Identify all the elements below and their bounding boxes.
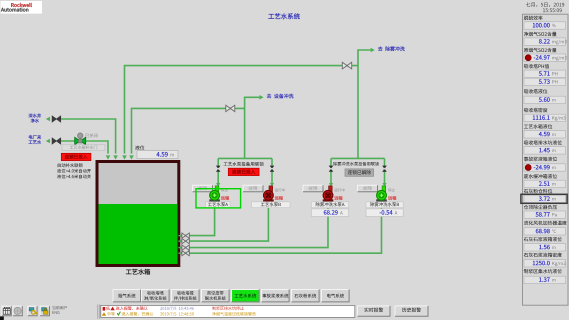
tank level value box xyxy=(137,151,178,159)
left pump group labels xyxy=(224,162,264,166)
nav button 吸收塔喷 xyxy=(141,289,170,302)
pump A 工艺水泵A (green, stopped) xyxy=(209,199,220,201)
sidebar value 58.77 Pa xyxy=(524,211,566,218)
sidebar label 工艺水箱液位 xyxy=(524,124,552,128)
sidebar label 石灰石浆液箱密度 xyxy=(524,253,562,257)
selection box around pump A xyxy=(196,189,241,208)
nav button 石灰粉系统 xyxy=(291,289,320,302)
label 电厂来工艺水 xyxy=(29,135,41,139)
pump B 工艺水泵B (red, running) xyxy=(263,199,274,201)
label 去设备冲洗 xyxy=(267,94,294,99)
pump current value boxes xyxy=(311,209,348,217)
arrow plant water xyxy=(46,139,50,144)
nav button 电气系统 xyxy=(321,289,350,302)
sidebar label 废水缓冲箱液位 xyxy=(524,174,557,178)
sidebar value 8.22 mg/m3 xyxy=(524,38,566,45)
sidebar label 仓顶除尘器负压 xyxy=(524,205,557,209)
sidebar value 1.45 m xyxy=(524,147,566,154)
branch up to equipment flush xyxy=(245,97,260,158)
tank inlet valve xyxy=(178,240,182,242)
tank 工艺水箱 xyxy=(97,162,179,266)
nav button 吸收塔搅 xyxy=(171,289,200,302)
label 工艺水箱 xyxy=(126,269,150,275)
sidebar label 净烟气SO2含量 xyxy=(524,32,557,36)
sidebar value 1.56 m xyxy=(524,244,566,251)
pump D discharge to tank xyxy=(183,202,382,254)
sidebar label 制浆区集水坑液位 xyxy=(524,269,562,273)
pump B discharge to tank xyxy=(183,202,268,242)
tank inlet valve xyxy=(178,247,182,249)
riser pump B xyxy=(271,158,273,183)
right pump group labels xyxy=(333,162,379,166)
sidebar value 5.73 PH xyxy=(524,78,566,85)
interlock engaged box xyxy=(232,170,255,174)
interlock engaged box left xyxy=(61,153,91,160)
sidebar label 原烟气SO2含量 xyxy=(524,48,557,52)
nav button 工艺水系统 xyxy=(231,289,260,302)
sidebar value -24.97 mg/m3 xyxy=(524,54,566,61)
sidebar label 吸收塔密度 xyxy=(524,108,547,112)
nav button 真空皮带 xyxy=(201,289,230,302)
nav button 事故浆液系统 xyxy=(261,289,290,302)
pipe: second header to equipment flush xyxy=(132,108,245,153)
sidebar label 吸收塔液位 xyxy=(524,89,547,93)
sidebar value 100.00 % xyxy=(524,22,566,29)
motor valve 工艺水箱补水门 (green bowtie + actuator) xyxy=(75,137,86,144)
fault buttons 故障 xyxy=(192,185,213,192)
sidebar label 流化风机加热器温度 xyxy=(524,221,567,225)
interlock released box xyxy=(348,170,371,174)
remote labels 远程 xyxy=(221,196,229,200)
date time xyxy=(526,2,564,7)
sidebar value 1250.0 Kg/m3 xyxy=(524,260,566,267)
sidebar label 吸收塔PH值 xyxy=(524,64,549,68)
sidebar label 石灰粉仓料位 xyxy=(524,189,552,193)
pump name plates xyxy=(206,202,230,208)
pump C 除雾冲洗水泵A (red, running) xyxy=(323,199,334,201)
supply valve label box 工艺水箱补水门 xyxy=(62,145,105,151)
alarm row 1 xyxy=(103,307,106,311)
sidebar value 1.37 m xyxy=(524,276,566,283)
left pump group suction header xyxy=(218,157,272,159)
status bar icons xyxy=(1,306,11,317)
valve well water xyxy=(52,116,61,122)
pump D 除雾冲洗水泵B (green, stopped) xyxy=(376,199,387,201)
pipe: well water inlet line xyxy=(61,119,116,154)
tank inlet valve xyxy=(178,252,182,254)
branch up to demister flush xyxy=(358,50,371,158)
Rockwell Automation logo xyxy=(1,1,43,14)
riser pump A xyxy=(217,158,219,183)
bottom-left black mark xyxy=(0,316,4,320)
tank inlet valve xyxy=(178,235,182,237)
valve on top header xyxy=(342,62,351,69)
label 深水井净水 xyxy=(29,114,41,118)
sidebar value 3.72 m xyxy=(524,195,566,202)
sidebar label 事故浆液箱液位 xyxy=(524,157,557,161)
nav button 烟气系统 xyxy=(113,289,142,302)
right pump group suction header xyxy=(331,157,385,159)
sidebar panel xyxy=(523,14,569,305)
pump status tiny texts xyxy=(221,188,228,191)
alarm row 2 xyxy=(102,312,106,316)
pump C discharge to tank xyxy=(183,202,328,248)
sidebar label 脱硫效率 xyxy=(524,16,543,20)
sidebar value -24.99 m xyxy=(524,164,566,171)
alarm list box xyxy=(101,305,355,317)
sidebar label 石灰石浆液箱液位 xyxy=(524,237,562,241)
pipe: plant process water inlet line xyxy=(61,141,109,154)
label 去除雾冲洗 xyxy=(378,46,405,51)
arrow well water xyxy=(46,117,50,122)
label 液位 xyxy=(135,145,144,149)
alarm buttons xyxy=(357,305,391,316)
label 已关闭 xyxy=(85,133,97,137)
sidebar value 2.51 m xyxy=(524,180,566,187)
pump A discharge to tank xyxy=(183,202,215,236)
sidebar label 吸收塔排水坑液位 xyxy=(524,140,562,144)
riser pump C xyxy=(330,158,332,183)
title 工艺水系统 xyxy=(268,13,299,19)
separator xyxy=(98,305,100,319)
riser pump D xyxy=(384,158,386,183)
valve plant water xyxy=(52,138,61,144)
tank water level xyxy=(99,204,178,264)
sidebar value 5.71 PH xyxy=(524,70,566,77)
sidebar value 68.98 ℃ xyxy=(524,228,566,235)
current user text xyxy=(52,306,67,310)
pipe: top header to demister flush xyxy=(125,66,359,154)
sidebar value 1116.1 Kg/m3 xyxy=(524,114,566,121)
valve on second header xyxy=(226,105,235,111)
auto fill interlock note xyxy=(58,163,83,167)
sidebar value 4.59 m xyxy=(524,131,566,138)
sidebar value 5.60 m xyxy=(524,96,566,103)
